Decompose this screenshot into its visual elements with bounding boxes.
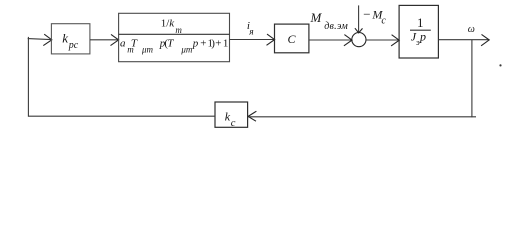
svg-text:aTp(Tp+1)+1: aTp(Tp+1)+1 [120,38,228,50]
arrowhead into C [267,34,275,45]
arrowhead into k_pc [43,34,52,45]
output arrowhead [481,34,489,45]
feedback vertical rise at left [27,37,29,117]
summing junction [352,33,366,47]
wire: big block to C [230,39,275,41]
block 1/(J_e p) [399,5,438,58]
wire: C to summing junction [309,39,352,41]
svg-text:M: M [310,10,323,25]
svg-text:−: − [363,7,370,22]
arrowhead into big block [111,34,119,45]
svg-text:с: с [381,15,386,26]
svg-text:ω: ω [468,24,475,35]
block C [275,24,309,53]
fraction bar in J block [410,29,431,31]
svg-text:рс: рс [68,40,79,51]
stray dot artifact [499,64,501,66]
svg-text:дв.эм: дв.эм [324,21,348,32]
wire: k_pc to big block [90,39,119,41]
arrowhead down into summing junction [355,28,363,33]
svg-text:p: p [419,29,426,43]
output wire [438,39,489,41]
svg-text:с: с [231,118,236,129]
wire: summing junction to 1/Jp block [366,39,399,41]
block k_pc (speed controller) [51,24,90,54]
svg-text:C: C [288,32,297,46]
svg-text:k: k [62,30,68,45]
svg-text:1: 1 [417,16,423,30]
svg-text:k: k [225,109,231,123]
arrowhead into k_c (pointing left) [248,111,256,121]
wire: -M_c vertical input [358,5,360,32]
feedback horizontal to k_c [248,116,476,118]
wire: k_c output to left [28,115,215,117]
feedback vertical drop [471,40,473,118]
block k_c [215,102,248,127]
svg-text:m: m [175,25,182,35]
fraction bar [119,33,230,35]
arrowhead into 1/Jp block [391,35,399,46]
svg-text:я: я [248,27,253,37]
wire: feedback corner to k_pc input [28,39,51,40]
svg-text:1/k: 1/k [161,17,176,29]
arrowhead into summing junction [344,35,352,46]
block: current loop transfer function [119,13,230,61]
